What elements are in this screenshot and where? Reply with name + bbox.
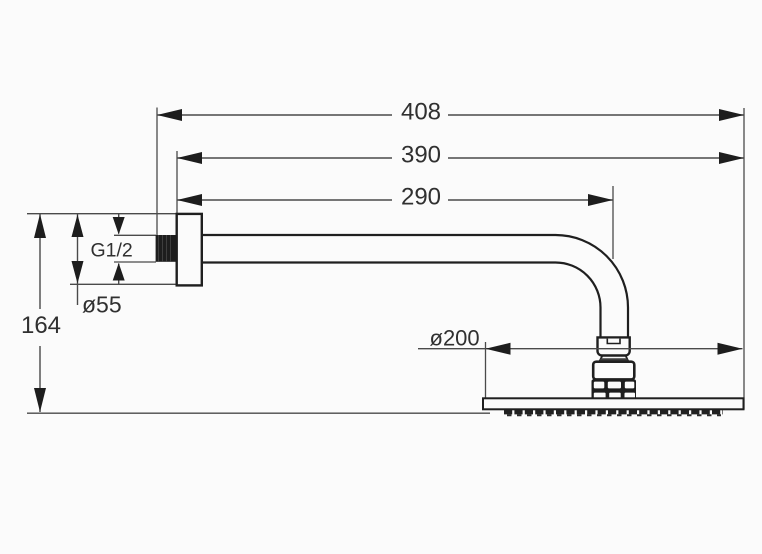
bottom reference line (head underside) — [27, 412, 490, 414]
extension line flange top left — [27, 213, 177, 215]
svg-text:390: 390 — [401, 142, 441, 169]
shower arm inner contour — [202, 263, 601, 339]
extension line for 390/290 left (flange face) — [176, 151, 178, 214]
extension line for 290 right (pipe centre) — [612, 186, 614, 259]
connector block — [593, 362, 634, 380]
thread block G1/2 — [156, 235, 177, 262]
extension line for 408 left (thread end) — [156, 108, 158, 236]
nozzle rows — [504, 412, 723, 415]
extension line thread bottom — [114, 261, 156, 263]
shower arm outer contour — [202, 235, 628, 338]
extension line right (head edge) — [743, 108, 745, 410]
svg-text:ø200: ø200 — [430, 326, 480, 351]
dimension diameter 200 line — [418, 343, 743, 355]
collar at pipe end — [598, 337, 630, 355]
extension line thread top — [114, 234, 156, 236]
svg-text:290: 290 — [401, 184, 441, 211]
shower head plate — [483, 398, 744, 409]
taper ring — [599, 356, 628, 362]
dimension 290 line — [177, 194, 613, 206]
dimension 408 line — [157, 109, 744, 121]
svg-text:408: 408 — [401, 99, 441, 126]
mounting nut — [592, 379, 637, 399]
wall flange — [177, 214, 202, 286]
svg-text:ø55: ø55 — [82, 292, 122, 318]
dimension diameter 55 line — [72, 214, 84, 305]
svg-text:164: 164 — [21, 312, 61, 339]
dimension 164 line — [34, 214, 46, 412]
extension line head left edge — [485, 342, 487, 399]
dimension G1/2 arrows — [113, 214, 125, 284]
extension line flange bottom left — [70, 283, 177, 285]
svg-text:G1/2: G1/2 — [91, 240, 133, 262]
dimension 390 line — [177, 152, 744, 164]
